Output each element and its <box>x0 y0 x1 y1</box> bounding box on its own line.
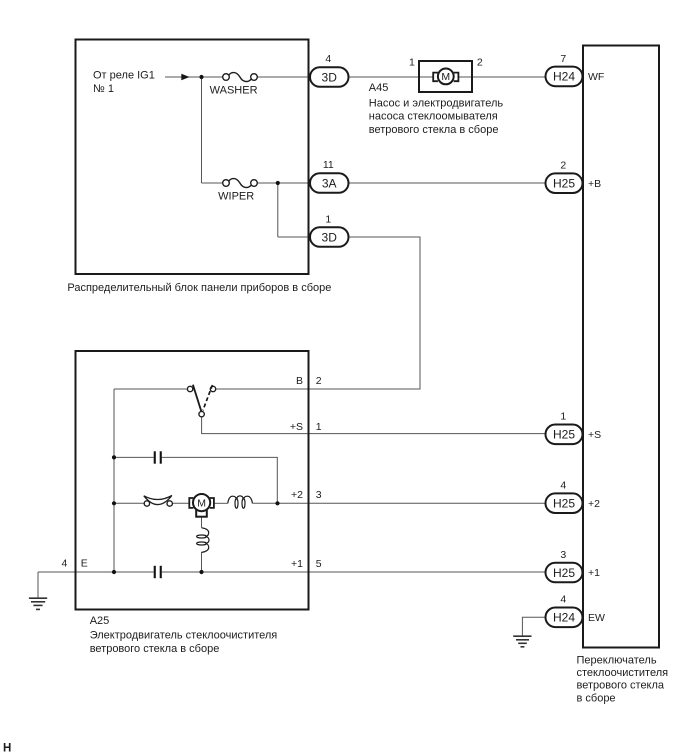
svg-text:5: 5 <box>316 558 322 570</box>
svg-text:насоса стеклоомывателя: насоса стеклоомывателя <box>369 111 498 123</box>
svg-text:EW: EW <box>588 612 605 624</box>
svg-text:H25: H25 <box>553 566 575 580</box>
svg-text:H24: H24 <box>553 70 575 84</box>
svg-text:M: M <box>197 498 206 510</box>
svg-text:A25: A25 <box>90 615 110 627</box>
svg-text:WASHER: WASHER <box>210 85 258 97</box>
svg-text:WF: WF <box>588 71 604 83</box>
svg-text:+S: +S <box>290 421 303 433</box>
svg-text:3D: 3D <box>322 230 338 244</box>
svg-text:ветрового стекла: ветрового стекла <box>577 680 665 692</box>
svg-text:H25: H25 <box>553 428 575 442</box>
svg-text:Распределительный блок панели: Распределительный блок панели приборов в… <box>67 282 331 294</box>
svg-text:+S: +S <box>588 429 601 441</box>
svg-text:1: 1 <box>325 213 331 225</box>
svg-text:3: 3 <box>560 549 566 561</box>
svg-text:E: E <box>81 558 88 570</box>
svg-text:стеклоочистителя: стеклоочистителя <box>577 667 669 679</box>
svg-text:4: 4 <box>560 594 566 606</box>
svg-text:4: 4 <box>325 53 331 65</box>
svg-text:+2: +2 <box>588 498 600 510</box>
svg-text:ветрового стекла в сборе: ветрового стекла в сборе <box>369 124 499 136</box>
svg-text:A45: A45 <box>369 82 389 94</box>
svg-text:3D: 3D <box>322 70 338 84</box>
svg-text:+1: +1 <box>291 558 303 570</box>
svg-text:2: 2 <box>316 375 322 387</box>
svg-text:H: H <box>3 742 11 754</box>
svg-text:Переключатель: Переключатель <box>577 654 657 666</box>
svg-text:11: 11 <box>323 159 334 171</box>
svg-text:1: 1 <box>560 411 566 423</box>
svg-text:№ 1: № 1 <box>93 83 114 95</box>
svg-text:+1: +1 <box>588 567 600 579</box>
svg-text:в сборе: в сборе <box>577 692 616 704</box>
svg-text:+2: +2 <box>291 489 303 501</box>
svg-text:4: 4 <box>560 480 566 492</box>
svg-text:От реле IG1: От реле IG1 <box>93 70 155 82</box>
svg-text:2: 2 <box>560 160 566 172</box>
svg-text:1: 1 <box>316 421 322 433</box>
svg-text:B: B <box>296 375 303 387</box>
svg-text:3A: 3A <box>322 176 337 190</box>
svg-text:Электродвигатель стеклоочистит: Электродвигатель стеклоочистителя <box>90 630 278 642</box>
svg-text:H25: H25 <box>553 177 575 191</box>
svg-text:ветрового стекла в сборе: ветрового стекла в сборе <box>90 643 220 655</box>
svg-text:+B: +B <box>588 178 601 190</box>
svg-text:2: 2 <box>477 57 483 69</box>
svg-text:4: 4 <box>62 558 68 570</box>
svg-text:H24: H24 <box>553 611 575 625</box>
svg-text:1: 1 <box>409 57 415 69</box>
svg-text:3: 3 <box>316 489 322 501</box>
svg-text:7: 7 <box>560 53 566 65</box>
svg-text:M: M <box>441 71 450 83</box>
svg-text:WIPER: WIPER <box>218 190 254 202</box>
svg-text:Насос и электродвигатель: Насос и электродвигатель <box>369 97 504 109</box>
svg-text:H25: H25 <box>553 497 575 511</box>
